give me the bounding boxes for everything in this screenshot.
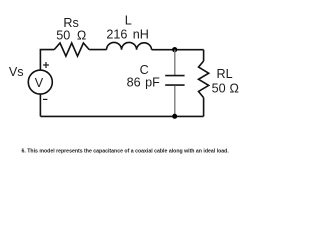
source Vs circle bbox=[28, 70, 52, 94]
svg-text:nH: nH bbox=[133, 27, 149, 41]
wire bottom rail bbox=[40, 115, 203, 117]
capacitor C plates bbox=[165, 76, 184, 86]
source plus sign bbox=[43, 62, 49, 68]
wire source bottom lead bbox=[39, 94, 41, 116]
wire top-left from source top up and right bbox=[40, 50, 54, 71]
node bottom junction dot bbox=[172, 114, 177, 119]
svg-text:Ω: Ω bbox=[229, 81, 238, 95]
source minus sign bbox=[43, 98, 47, 100]
svg-text:6. This model represents the c: 6. This model represents the capacitance… bbox=[22, 148, 230, 154]
resistor RL bbox=[199, 61, 209, 98]
svg-text:Ω: Ω bbox=[77, 29, 86, 43]
node top junction dot bbox=[172, 47, 177, 52]
inductor L bbox=[107, 42, 152, 49]
svg-text:50: 50 bbox=[212, 81, 226, 95]
svg-text:pF: pF bbox=[145, 75, 160, 89]
svg-text:50: 50 bbox=[56, 29, 70, 43]
svg-text:V: V bbox=[35, 76, 44, 90]
wire top-right corner down to RL bbox=[203, 50, 205, 61]
capacitor C bottom lead bbox=[174, 86, 176, 117]
svg-text:Vs: Vs bbox=[9, 65, 24, 79]
wire Rs to L bbox=[89, 49, 106, 51]
svg-text:L: L bbox=[125, 14, 132, 28]
svg-text:216: 216 bbox=[106, 27, 127, 41]
capacitor C top lead bbox=[174, 50, 176, 75]
resistor Rs bbox=[54, 43, 89, 56]
svg-text:RL: RL bbox=[217, 67, 233, 81]
svg-text:86: 86 bbox=[127, 75, 141, 89]
wire RL bottom to bottom rail bbox=[203, 98, 205, 117]
wire L to top-right corner bbox=[152, 49, 204, 51]
